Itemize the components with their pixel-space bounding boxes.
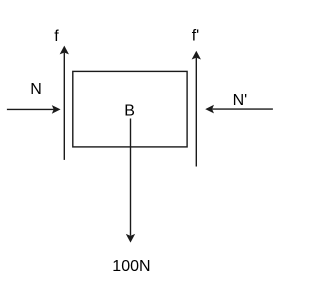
normal force N' arrow (right, pointing left)	[212, 108, 273, 110]
normal force N arrow (left, pointing right)	[7, 108, 54, 110]
svg-text:f': f'	[192, 28, 200, 45]
friction arrowhead f (up)	[60, 46, 68, 54]
left wall / friction line	[63, 53, 65, 160]
right wall / friction line	[195, 58, 197, 167]
svg-text:N: N	[30, 81, 42, 98]
N' arrowhead	[206, 105, 214, 112]
weight arrowhead (down)	[127, 235, 135, 243]
svg-text:f: f	[54, 28, 59, 45]
svg-text:N': N'	[233, 92, 248, 109]
friction arrowhead f' (up)	[192, 51, 200, 59]
svg-text:B: B	[124, 103, 135, 120]
svg-text:100N: 100N	[112, 258, 150, 275]
N arrowhead	[52, 106, 60, 113]
block B rectangle	[73, 71, 187, 146]
weight arrow 100N (down from B)	[130, 119, 132, 236]
